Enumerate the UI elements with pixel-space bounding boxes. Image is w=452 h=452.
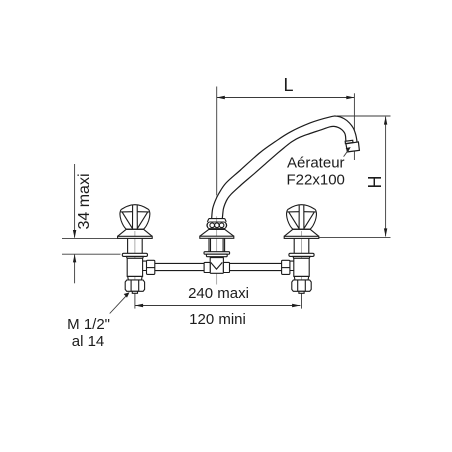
- svg-text:H: H: [365, 176, 385, 189]
- svg-text:240 maxi: 240 maxi: [188, 285, 249, 302]
- svg-text:120 mini: 120 mini: [189, 311, 246, 328]
- svg-text:F22x100: F22x100: [287, 172, 345, 189]
- svg-text:al 14: al 14: [72, 333, 105, 350]
- svg-text:Aérateur: Aérateur: [287, 155, 345, 172]
- svg-text:34 maxi: 34 maxi: [76, 173, 93, 229]
- svg-text:M 1/2": M 1/2": [67, 316, 110, 333]
- svg-text:L: L: [284, 75, 294, 95]
